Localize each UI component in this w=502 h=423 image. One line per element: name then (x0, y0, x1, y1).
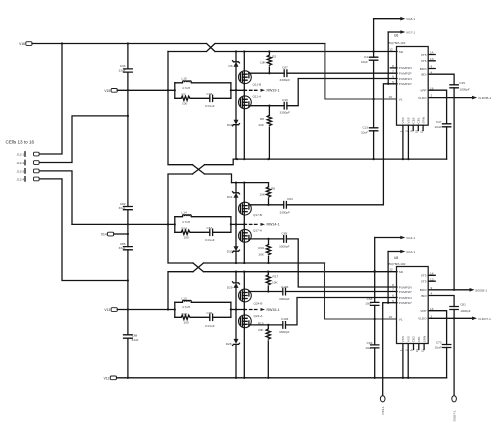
svg-text:33uF: 33uF (118, 68, 125, 72)
net flag VG7-1 (388, 30, 415, 34)
svg-text:C47: C47 (436, 120, 442, 124)
U6 bottom pins (399, 117, 425, 159)
svg-text:J12-1: J12-1 (17, 153, 25, 157)
wire C40 to U6 pin6 (287, 79, 397, 106)
wire V12 bottom rail (117, 377, 447, 379)
svg-text:VPP: VPP (420, 309, 426, 313)
svg-text:VG8-1: VG8-1 (406, 17, 415, 21)
snubber network box 1 (174, 81, 232, 102)
junction dots bottom drain rail (235, 271, 376, 273)
capacitor chain C4 C13 (373, 19, 375, 159)
U8 left pin numbers (389, 267, 395, 319)
U8 pin14 pin13 stubs (429, 275, 436, 281)
svg-text:L15: L15 (182, 77, 187, 81)
svg-text:VG3-1: VG3-1 (406, 250, 415, 254)
svg-text:5: 5 (392, 80, 394, 84)
net flag VG4-1 (375, 236, 416, 240)
svg-text:R20: R20 (182, 312, 188, 316)
svg-text:100: 100 (182, 102, 187, 106)
svg-text:6: 6 (392, 75, 394, 79)
net flag VG8-1 (374, 17, 416, 21)
svg-text:Q11-B: Q11-B (253, 83, 262, 87)
capacitor C88 (124, 334, 139, 342)
diode column top block (235, 52, 237, 160)
capacitor C36 (118, 64, 132, 72)
svg-text:XT5: XT5 (421, 274, 427, 278)
svg-text:3300pF: 3300pF (279, 297, 290, 301)
svg-text:C103: C103 (281, 285, 289, 289)
svg-text:XT5: XT5 (421, 59, 427, 63)
svg-text:C96: C96 (207, 311, 213, 315)
svg-text:C29: C29 (459, 81, 465, 85)
capacitor C82 (118, 202, 132, 210)
svg-text:BDOB-1: BDOB-1 (476, 288, 488, 292)
transistor Q11-B (239, 71, 262, 87)
capacitor C103 (279, 285, 290, 301)
mosfet column bottom block (243, 272, 245, 378)
transistor Q24-A (239, 314, 264, 328)
svg-text:C87: C87 (282, 66, 288, 70)
wire C104 to U8 pin6 (286, 298, 398, 325)
wire U8 BDI to C81 (429, 296, 455, 307)
svg-text:D31: D31 (227, 195, 233, 199)
svg-text:J12-4: J12-4 (17, 177, 25, 181)
svg-text:10K: 10K (260, 61, 266, 65)
wire Q11-A gate row (249, 105, 284, 107)
svg-text:XT5: XT5 (421, 53, 427, 57)
svg-text:CB2: CB2 (411, 117, 415, 123)
diode column mid block (235, 183, 237, 263)
svg-text:BDI: BDI (421, 73, 426, 77)
transistor Q24-B (239, 289, 263, 306)
svg-text:V16: V16 (19, 42, 25, 46)
svg-text:C4: C4 (364, 55, 368, 59)
svg-text:15: 15 (389, 315, 393, 319)
capacitor chain C68 C69 (374, 238, 376, 378)
svg-text:P23-1: P23-1 (381, 406, 385, 415)
wire C103 to U8 pin7 (286, 291, 398, 293)
svg-text:Q11-A: Q11-A (253, 94, 263, 98)
svg-text:BDI: BDI (421, 294, 426, 298)
wire V13 row (117, 309, 175, 311)
svg-text:D8: D8 (229, 64, 233, 68)
svg-text:4.7uH: 4.7uH (182, 305, 190, 309)
node V14 flag (101, 232, 114, 236)
svg-text:C104: C104 (281, 317, 289, 321)
svg-text:0.01uF: 0.01uF (205, 104, 215, 108)
svg-text:PUMP2N: PUMP2N (399, 66, 412, 70)
connector flag P23-1 (380, 396, 385, 415)
svg-text:C85: C85 (282, 232, 288, 236)
U6 left pin labels (399, 50, 412, 102)
svg-text:PUMP2N: PUMP2N (399, 285, 412, 289)
capacitor C40 (280, 98, 291, 114)
svg-text:R19: R19 (258, 322, 264, 326)
svg-text:BDO: BDO (420, 288, 427, 292)
wire left cell rail x=127 (127, 44, 129, 378)
svg-text:10: 10 (415, 349, 419, 352)
resistor R2 (260, 52, 277, 74)
wire U8 BDO out (429, 289, 470, 291)
net flag VLDOB-1 (472, 96, 492, 100)
svg-text:3300pF: 3300pF (280, 211, 291, 215)
U6 right pin numbers (430, 51, 434, 98)
svg-text:7: 7 (392, 288, 394, 292)
snubber network box 3 (174, 300, 232, 320)
svg-text:C57: C57 (207, 226, 213, 230)
wire mid mid node (231, 223, 247, 225)
svg-text:33uF: 33uF (118, 206, 125, 210)
svg-text:R18: R18 (182, 227, 188, 231)
capacitor C70 (434, 341, 450, 378)
svg-text:RW15-1: RW15-1 (267, 308, 280, 312)
svg-text:R8: R8 (260, 117, 264, 121)
capacitor C104 (279, 317, 290, 334)
svg-text:3300pF: 3300pF (279, 330, 290, 334)
zener D31 (227, 192, 240, 200)
resistor R6 (259, 183, 275, 205)
svg-text:VLDO: VLDO (418, 317, 427, 321)
zener D30 (227, 246, 240, 253)
svg-text:8: 8 (392, 283, 394, 287)
capacitor C81 (450, 303, 471, 319)
svg-text:U6: U6 (394, 34, 398, 38)
svg-text:0.01uF: 0.01uF (205, 324, 215, 328)
wire Q24-A gate row (249, 324, 283, 326)
svg-text:VPP: VPP (420, 89, 426, 93)
svg-text:10uF: 10uF (434, 125, 441, 129)
svg-text:Q17-A: Q17-A (253, 229, 263, 233)
svg-text:V13: V13 (104, 308, 110, 312)
svg-text:6: 6 (392, 294, 394, 298)
svg-text:V12: V12 (104, 376, 110, 380)
svg-text:20K: 20K (258, 252, 264, 256)
crossover X2 (193, 159, 234, 183)
junction dots V16 rail (61, 42, 375, 52)
wire J12-4 riser (39, 179, 128, 281)
U6 pin8 stub (390, 67, 397, 69)
capacitor C47 (434, 120, 450, 159)
svg-text:J12-3: J12-3 (17, 169, 25, 173)
net RW14-1 (250, 223, 280, 227)
svg-text:1000pF: 1000pF (460, 309, 471, 313)
svg-text:CB1: CB1 (417, 117, 421, 123)
svg-text:PUMP1N: PUMP1N (399, 296, 412, 300)
svg-text:3300pF: 3300pF (280, 78, 291, 82)
svg-text:D28: D28 (226, 342, 232, 346)
wire bottom mid node (231, 309, 247, 311)
svg-text:R2: R2 (272, 55, 276, 59)
svg-text:V1: V1 (399, 317, 403, 321)
op-amp U8 body (389, 256, 429, 344)
transistor Q17-A (239, 229, 263, 243)
svg-text:C69: C69 (367, 341, 373, 345)
svg-text:CElls 13 to 16: CElls 13 to 16 (6, 139, 35, 144)
svg-text:33uF: 33uF (132, 338, 139, 342)
svg-text:VLDO: VLDO (418, 96, 427, 100)
U8 right pin labels (418, 274, 427, 321)
capacitor C69 (365, 341, 379, 350)
net flag BDOB-1 (470, 288, 488, 292)
wire Q24-B gate row (249, 291, 283, 293)
svg-text:VSS: VSS (401, 336, 405, 342)
U8 right pin numbers (430, 271, 434, 318)
svg-text:4.7uH: 4.7uH (182, 86, 190, 90)
svg-text:20K: 20K (258, 123, 264, 127)
svg-text:V14: V14 (101, 233, 107, 237)
svg-text:RW14-1: RW14-1 (267, 223, 280, 227)
svg-text:12: 12 (389, 267, 393, 271)
svg-text:Q17-B: Q17-B (253, 213, 262, 217)
wire V14 row y224 (72, 223, 175, 225)
svg-text:10K: 10K (272, 280, 278, 284)
svg-text:10uF: 10uF (365, 346, 372, 350)
svg-text:3300pF: 3300pF (279, 244, 290, 248)
svg-text:C81: C81 (460, 303, 466, 307)
U8 bottom pins (399, 336, 426, 378)
svg-text:12: 12 (389, 48, 393, 52)
svg-text:L14: L14 (182, 211, 187, 215)
wire U6 VPP to C47 (429, 90, 447, 124)
op-amp U6 body (389, 34, 429, 126)
wire mid drain rail (232, 182, 269, 184)
svg-text:D32: D32 (227, 123, 233, 127)
svg-text:R17: R17 (273, 274, 279, 278)
wire J12-1 riser (39, 44, 62, 155)
capacitor C4 (361, 55, 378, 64)
svg-text:C40: C40 (282, 98, 288, 102)
capacitor C68 (365, 297, 379, 306)
svg-text:10uF: 10uF (361, 131, 368, 135)
svg-text:D30: D30 (227, 250, 233, 254)
svg-text:SD: SD (399, 50, 404, 54)
svg-text:R6: R6 (271, 186, 275, 190)
svg-text:J12-2: J12-2 (17, 161, 25, 165)
capacitor C84 (280, 197, 293, 214)
wire VG7 riser to pin5 (387, 32, 389, 84)
wire VG3 riser to U8 pin5 (387, 252, 389, 303)
wire V15 row (117, 89, 175, 91)
U6 pin14 pin13 pin9 stubs (429, 55, 436, 69)
svg-text:20K: 20K (258, 328, 264, 332)
svg-text:100: 100 (184, 236, 189, 240)
node V15 flag (104, 89, 117, 93)
wire J12-2 riser (39, 116, 128, 163)
net RW15-1 (250, 308, 280, 312)
svg-text:BQ76PL102: BQ76PL102 (389, 41, 406, 45)
svg-text:VSS: VSS (407, 117, 411, 123)
svg-text:PUMP1N: PUMP1N (399, 77, 412, 81)
svg-text:VSS: VSS (401, 117, 405, 123)
resistor R17 (266, 272, 278, 292)
svg-text:SDO7-1: SDO7-1 (453, 410, 457, 421)
zener D29 (227, 282, 240, 290)
wire pump riser x=167 (168, 52, 193, 310)
mosfet column mid block (243, 183, 245, 263)
wire Q17-B gate row (249, 204, 284, 206)
net RW19-1 (250, 89, 280, 93)
transistor Q11-A (239, 94, 263, 108)
connector J12 pins (17, 152, 40, 182)
svg-text:RW19-1: RW19-1 (267, 89, 280, 93)
wire C87 to U6 pin7 (287, 72, 397, 74)
svg-text:D29: D29 (227, 285, 233, 289)
capacitor C85 (279, 232, 290, 249)
svg-text:VSS: VSS (406, 336, 410, 342)
svg-text:PUMP1P: PUMP1P (399, 82, 412, 86)
wire U8 VLDO out (429, 317, 473, 319)
svg-text:10: 10 (415, 130, 419, 133)
wire Q11-B gate row (249, 72, 284, 74)
node V16 flag (19, 42, 32, 46)
svg-text:CB1: CB1 (417, 336, 421, 342)
diode column bottom block (235, 272, 237, 378)
wire pin5 riser to P23 flag (382, 303, 384, 396)
wire V14 stub (114, 233, 128, 235)
wire U6 VLDO out (429, 97, 473, 99)
svg-text:SRN: SRN (421, 117, 425, 124)
svg-text:CB2: CB2 (412, 336, 416, 342)
svg-text:R7: R7 (182, 93, 186, 97)
wire U8 pin5 row (383, 302, 397, 304)
wire top mid node (231, 89, 247, 91)
svg-text:SD: SD (399, 270, 404, 274)
svg-text:C84: C84 (287, 197, 293, 201)
U6 right pin labels (418, 53, 427, 100)
svg-text:XT5: XT5 (421, 280, 427, 284)
svg-text:BDO: BDO (420, 67, 427, 71)
svg-text:PUMP2P: PUMP2P (399, 290, 412, 294)
mosfet column top block (243, 52, 245, 160)
connector flag SDO7-1 (452, 396, 457, 422)
svg-text:C70: C70 (436, 341, 442, 345)
node V13 flag (104, 308, 117, 312)
crossover X3 (193, 263, 397, 272)
svg-text:10uF: 10uF (361, 60, 368, 64)
svg-text:VLDOB-1: VLDOB-1 (478, 96, 492, 100)
capacitor C86 (118, 242, 132, 250)
svg-text:10K: 10K (259, 192, 265, 196)
svg-text:33uF: 33uF (118, 246, 125, 250)
net flag VG3-1 (388, 250, 415, 254)
wire top block source rail y158 (233, 158, 446, 160)
node V12 flag (104, 376, 117, 380)
capacitor C13 (361, 126, 378, 135)
svg-text:4.7uH: 4.7uH (182, 220, 190, 224)
snubber network box 2 (174, 215, 232, 236)
svg-text:R16: R16 (258, 246, 264, 250)
svg-text:SRN: SRN (422, 336, 426, 343)
resistor R16 (258, 239, 270, 263)
wire V16 top rail (32, 44, 397, 52)
wire VLDO to SDO7 flag (453, 318, 455, 395)
U6 left pin numbers (389, 48, 395, 99)
svg-text:10uF: 10uF (365, 301, 372, 305)
svg-text:7: 7 (392, 70, 394, 74)
wire C85 to U8 pin8 (286, 239, 397, 287)
svg-text:L13: L13 (182, 297, 187, 301)
svg-text:PUMP1P: PUMP1P (399, 301, 412, 305)
wire U8 VPP to C70 (429, 311, 447, 345)
svg-text:C13: C13 (362, 126, 368, 130)
svg-text:0.01uF: 0.01uF (205, 238, 215, 242)
svg-text:3300pF: 3300pF (280, 110, 291, 114)
svg-text:100: 100 (184, 321, 189, 325)
wire C84 to U6 pin5 (286, 84, 397, 205)
resistor R19 (258, 322, 271, 378)
svg-text:VLDO7-1: VLDO7-1 (478, 317, 491, 321)
junction dot V15 at x127 (127, 115, 129, 117)
zener D28 (226, 339, 240, 346)
svg-text:C68: C68 (367, 297, 373, 301)
svg-text:U8: U8 (394, 256, 398, 260)
wire V15 to U6 pin15 (325, 44, 397, 100)
svg-text:PUMP2P: PUMP2P (399, 72, 412, 76)
wire mid source rail to U8 pin15 (325, 263, 398, 319)
svg-text:C38: C38 (207, 92, 213, 96)
capacitor C29 (450, 81, 470, 290)
capacitor C87 (280, 66, 291, 82)
wire U6 BDI to C29 (429, 74, 455, 85)
svg-text:Q24-B: Q24-B (254, 302, 263, 306)
svg-text:V1: V1 (399, 97, 403, 101)
svg-text:1000pF: 1000pF (459, 87, 470, 91)
svg-text:VG7-1: VG7-1 (406, 31, 415, 35)
zener D8 (229, 61, 240, 68)
svg-text:BQ76PL102: BQ76PL102 (389, 262, 406, 266)
transistor Q17-B (239, 202, 262, 217)
wire J12-3 riser (39, 171, 72, 225)
U8 left pin labels (399, 270, 412, 321)
svg-text:Q24-A: Q24-A (254, 314, 264, 318)
wire Q17-A gate row (249, 238, 284, 240)
zener D32 (227, 120, 240, 127)
svg-text:VG4-1: VG4-1 (406, 236, 415, 240)
net flag VLDO7-1 (472, 317, 491, 321)
resistor R8 (258, 106, 271, 159)
svg-text:10uF: 10uF (434, 346, 441, 350)
svg-text:V15: V15 (104, 89, 110, 93)
